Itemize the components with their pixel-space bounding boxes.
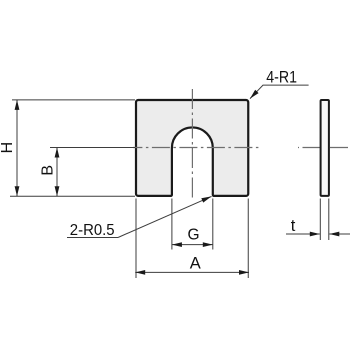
leader 4-R1 <box>250 85 309 99</box>
side view thin rectangle <box>321 100 329 196</box>
B arrow up <box>55 148 60 158</box>
svg-text:B: B <box>39 165 56 176</box>
G right extension line <box>212 199 214 250</box>
dimension B line <box>56 148 58 197</box>
horizontal centerline of side view <box>298 147 348 149</box>
A right extension line <box>247 199 249 279</box>
G left extension line <box>171 199 173 250</box>
horizontal centerline of front view <box>133 147 259 149</box>
t right dimension line <box>329 233 350 235</box>
H-B bottom extension line <box>10 195 135 197</box>
H top extension line <box>12 99 135 101</box>
A arrow left <box>135 270 145 275</box>
G arrow right <box>203 242 213 247</box>
B arrow down <box>55 186 60 196</box>
svg-text:G: G <box>188 227 200 244</box>
t left dimension line <box>286 233 320 235</box>
svg-text:A: A <box>190 254 201 272</box>
leader 2-R0.5 arrowhead <box>201 196 211 202</box>
svg-text:2-R0.5: 2-R0.5 <box>70 222 115 239</box>
svg-text:H: H <box>0 142 16 154</box>
svg-text:t: t <box>291 217 296 235</box>
leader 2-R0.5 diagonal <box>118 196 212 237</box>
leader 4-R1 arrowhead <box>250 90 259 99</box>
B top extension line (solid part left of plate) <box>50 147 135 149</box>
leader 2-R0.5 underline <box>67 237 118 239</box>
dimension A line <box>135 271 249 273</box>
plate front view (U-shaped shim body) <box>136 100 248 196</box>
t left arrow (points right) <box>310 232 320 237</box>
dimension G line <box>172 244 213 246</box>
svg-text:4-R1: 4-R1 <box>266 69 297 87</box>
H arrow up <box>15 100 20 110</box>
G arrow left <box>172 242 182 247</box>
dimension H line <box>16 100 18 196</box>
H arrow down <box>15 186 20 196</box>
t right arrow (points left) <box>329 232 339 237</box>
A left extension line <box>135 199 137 279</box>
vertical centerline of front view <box>191 89 193 201</box>
t left extension line <box>319 199 321 241</box>
A arrow right <box>239 270 249 275</box>
t right extension line <box>328 199 330 241</box>
